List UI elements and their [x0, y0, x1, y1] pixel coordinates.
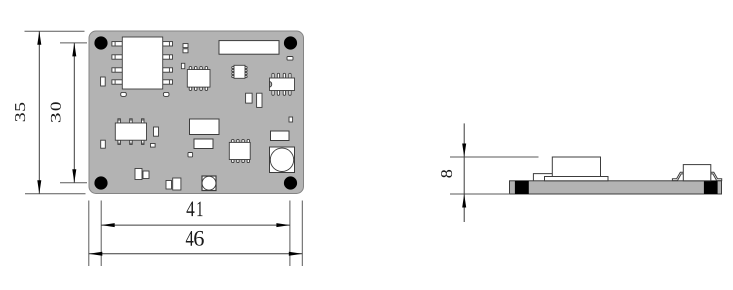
extension line (board bottom, for 35): [25, 193, 86, 195]
dimension text 30: [51, 102, 61, 122]
extension line (board bottom, for 8): [450, 193, 510, 195]
extension line (board top, for 35): [25, 30, 85, 32]
capacitor C1 (vertical pad pair left): [246, 93, 253, 103]
resistor R1 (two stacked pads top-center): [183, 44, 188, 53]
side view module M1 (large component): [533, 157, 608, 181]
pad P3 (left edge upper): [101, 77, 106, 86]
extension line (hole H1 center, for 30): [60, 42, 87, 44]
dimension line 41 (horizontal): [101, 223, 290, 227]
capacitor C5 (pad pair bottom-left large): [135, 169, 149, 180]
IC U4 (DIP with notch, top-right): [270, 73, 295, 95]
mounting hole H3 (bottom-left): [94, 176, 107, 189]
inductor L2 (smaller rectangle below L1): [194, 139, 213, 149]
side view component M2 (small gull-wing part): [672, 165, 721, 181]
dimension text 46: [186, 231, 204, 246]
dimension line 46 (horizontal): [89, 252, 302, 256]
pad P6 (tiny, right edge): [289, 117, 293, 122]
IC U2 (SOIC-8, pins up/down): [187, 67, 210, 91]
side view left end block (black): [515, 181, 529, 194]
connector J1 (long rectangle, top): [219, 41, 279, 55]
mounting hole H2 (top-right): [284, 36, 297, 49]
capacitor C4 (rect above oscillator): [271, 131, 290, 141]
extension line (component top, for 8): [450, 156, 539, 158]
inductor L1 (center rectangle): [190, 119, 220, 135]
dimension text 35: [15, 103, 25, 122]
dimension line 8 (vertical with outside arrows): [462, 123, 466, 222]
switch SW1 (push button, bottom): [202, 176, 216, 191]
extension line (hole H4 down, for 41): [289, 201, 291, 267]
dimension line 30 (vertical): [72, 43, 76, 183]
IC U1 (large 8-pin module, top-left): [112, 37, 173, 89]
mounting hole H1 (top-left): [94, 36, 107, 49]
side view right end block (black): [704, 181, 718, 194]
IC U3 (MSOP-8, side pins): [232, 65, 247, 78]
extension line (hole H3 center, for 30): [60, 182, 87, 184]
pad P4 (small vertical, above U2): [181, 63, 184, 68]
dimension text 41: [187, 202, 203, 217]
mounting hole H4 (bottom-right): [284, 176, 297, 189]
pad P8 (small, below C3): [151, 144, 156, 148]
pad P5 (below hole H2): [287, 57, 293, 61]
transistor Q1 (SOT-23-6, mid-left): [115, 119, 146, 145]
extension line (hole H3 down, for 41): [100, 201, 102, 267]
oscillator X1 (square with circle): [270, 147, 295, 173]
side view PCB bar: [510, 181, 722, 194]
capacitor C6 (pad pair bottom-center): [166, 178, 181, 190]
dimension line 35 (vertical): [37, 31, 41, 193]
pad P1 (below U1 left): [121, 92, 127, 96]
capacitor C2 (vertical pad pair right): [257, 93, 262, 107]
pad P7 (left edge lower): [101, 140, 106, 148]
extension line (board left down, for 46): [88, 201, 90, 267]
IC U5 (SOIC-8, lower center-right): [229, 139, 250, 162]
PCB board outline (top view): [89, 31, 304, 194]
dimension text 8: [441, 170, 452, 178]
pad P2 (below U1 right): [163, 92, 169, 96]
capacitor C3 (right of Q1): [154, 127, 159, 136]
extension line (board right down, for 46): [301, 201, 303, 267]
pad P9 (small, below L2): [188, 153, 193, 157]
